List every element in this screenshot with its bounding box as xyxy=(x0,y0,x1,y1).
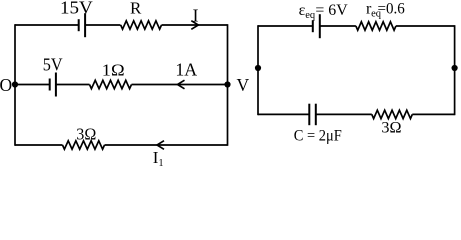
resistor R xyxy=(121,21,162,29)
wire battery 5V to resistor 1 ohm xyxy=(56,84,90,86)
svg-text:15V: 15V xyxy=(60,0,93,18)
resistor r_eq xyxy=(356,22,396,30)
resistor 3 ohm (right circuit) xyxy=(372,110,413,118)
wire top-left corner to battery eps_eq xyxy=(258,25,313,27)
resistor 3 ohm (left circuit) xyxy=(63,141,105,149)
wire left vertical (right circuit) xyxy=(257,25,259,115)
svg-text:3Ω: 3Ω xyxy=(381,120,401,137)
battery 5V xyxy=(50,73,56,97)
svg-text:I: I xyxy=(193,6,199,26)
svg-text:V: V xyxy=(237,75,250,95)
svg-text:5V: 5V xyxy=(43,55,63,75)
arrow current I (pointing right) xyxy=(191,21,198,30)
wire left vertical (left circuit) xyxy=(14,24,16,146)
wire resistor R to top-right corner xyxy=(162,24,228,26)
node O xyxy=(12,81,18,87)
battery eps_eq 6V xyxy=(313,14,320,38)
resistor 1 ohm xyxy=(90,80,132,88)
wire battery eps_eq to resistor r_eq xyxy=(320,25,356,27)
wire bottom-left corner to resistor 3 ohm xyxy=(15,144,63,146)
arrow current I1 (pointing left) xyxy=(157,141,164,150)
wire resistor r_eq to top-right corner xyxy=(396,25,455,27)
wire resistor 3 ohm to bottom-right corner xyxy=(412,113,454,115)
capacitor C xyxy=(309,104,316,126)
wire right vertical (right circuit) xyxy=(454,25,456,115)
svg-text:O: O xyxy=(0,75,12,95)
arrow current 1A (pointing left) xyxy=(178,80,185,89)
node V xyxy=(224,81,230,87)
wire right vertical (left circuit) xyxy=(227,24,229,146)
node junction right (right circuit) xyxy=(452,65,458,71)
svg-text:3Ω: 3Ω xyxy=(76,124,96,143)
node junction left (right circuit) xyxy=(255,65,261,71)
svg-text:I1: I1 xyxy=(153,148,164,169)
svg-text:1Ω: 1Ω xyxy=(102,60,125,79)
svg-text:C = 2μF: C = 2μF xyxy=(294,127,342,144)
wire battery 15V to resistor R xyxy=(85,24,120,26)
svg-text:= 6V: = 6V xyxy=(315,2,348,19)
wire bottom-left corner to capacitor C xyxy=(258,113,309,115)
battery 15V xyxy=(79,13,85,37)
wire top-left corner to battery 15V xyxy=(15,24,79,26)
svg-text:R: R xyxy=(130,0,142,18)
wire resistor 3 ohm to bottom-right corner xyxy=(105,144,228,146)
svg-text:eq: eq xyxy=(305,10,316,21)
wire capacitor C to resistor 3 ohm xyxy=(316,113,372,115)
wire node O to battery 5V xyxy=(15,84,50,86)
svg-text:=0.6: =0.6 xyxy=(378,1,405,18)
wire resistor 1 ohm to node V xyxy=(132,84,228,86)
svg-text:1A: 1A xyxy=(175,59,197,79)
